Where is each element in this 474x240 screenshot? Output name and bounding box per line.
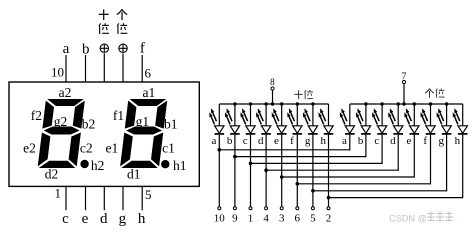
- svg-text:d: d: [100, 211, 108, 227]
- wire link segment c horizontal: [251, 162, 383, 164]
- svg-text:f: f: [423, 135, 427, 147]
- label GeWei (ones digit) vertical: [117, 9, 127, 34]
- tens decimal point h2: [80, 160, 88, 168]
- wire tens f cathode down to pin 6: [296, 134, 298, 207]
- LED tens segment a: [209, 104, 224, 134]
- wire link segment e horizontal: [282, 176, 415, 178]
- junction on ones rail: [445, 102, 448, 105]
- pin 1 terminal: [249, 207, 252, 210]
- svg-text:a1: a1: [143, 85, 156, 100]
- svg-text:6: 6: [145, 66, 152, 81]
- LED tens segment g: [303, 104, 318, 134]
- junction on ones rail: [380, 102, 383, 105]
- junction node b: [233, 155, 237, 159]
- junction node h: [327, 196, 331, 200]
- svg-text:h1: h1: [173, 158, 187, 173]
- wire link segment g horizontal: [313, 190, 447, 192]
- pin 6 terminal: [296, 207, 299, 210]
- wire ones a cathode drop: [349, 134, 351, 151]
- pin tens common anode (top): [103, 54, 105, 83]
- svg-text:d2: d2: [45, 166, 59, 181]
- svg-text:a: a: [63, 41, 70, 57]
- LED ones segment a: [340, 104, 355, 134]
- svg-text:b2: b2: [82, 116, 96, 131]
- junction node f: [296, 182, 300, 186]
- svg-text:c2: c2: [80, 140, 93, 155]
- pin 2 terminal: [327, 207, 330, 210]
- wire tens a cathode down to pin 10: [218, 134, 220, 207]
- svg-text:b: b: [82, 42, 90, 58]
- svg-text:c: c: [62, 211, 69, 227]
- wire link segment b horizontal: [235, 156, 366, 158]
- svg-text:d1: d1: [127, 166, 141, 181]
- wire tens b cathode down to pin 9: [234, 134, 236, 207]
- pin f (top): [141, 55, 143, 82]
- wire ones b cathode drop: [365, 134, 367, 157]
- pin 8 terminal: [270, 78, 275, 104]
- tens common anode rail: [219, 103, 328, 105]
- svg-text:d: d: [390, 135, 396, 147]
- svg-text:10: 10: [214, 212, 226, 224]
- svg-text:e: e: [407, 135, 412, 147]
- svg-text:5: 5: [145, 187, 152, 202]
- wire ones f cathode drop: [430, 134, 432, 185]
- circled-plus tens anode symbol: [100, 44, 108, 52]
- LED ones segment g: [437, 104, 452, 134]
- junction on ones rail: [397, 102, 400, 105]
- svg-text:4: 4: [263, 212, 269, 224]
- svg-text:h: h: [320, 135, 326, 147]
- svg-text:2: 2: [326, 212, 332, 224]
- svg-text:g: g: [305, 135, 311, 147]
- junction on tens rail: [311, 102, 314, 105]
- pin 9 terminal: [233, 207, 236, 210]
- junction node e: [280, 175, 284, 179]
- svg-text:c: c: [374, 135, 379, 147]
- svg-text:c: c: [243, 135, 248, 147]
- wire ones c cathode drop: [381, 134, 383, 164]
- svg-text:d: d: [258, 135, 264, 147]
- wire link segment a horizontal: [219, 149, 349, 151]
- junction on ones rail: [364, 102, 367, 105]
- pin a (top): [65, 55, 67, 82]
- wire tens c cathode down to pin 1: [250, 134, 252, 207]
- ones digit figure 8: [120, 99, 167, 168]
- wire link segment f horizontal: [297, 183, 430, 185]
- LED ones segment h: [453, 104, 468, 134]
- svg-text:b1: b1: [164, 116, 178, 131]
- ones decimal point h1: [161, 160, 169, 168]
- LED tens segment c: [241, 104, 256, 134]
- wire ones g cathode drop: [446, 134, 448, 192]
- svg-text:5: 5: [310, 212, 316, 224]
- svg-text:h: h: [455, 135, 461, 147]
- LED tens segment f: [287, 104, 302, 134]
- junction node g: [311, 189, 315, 193]
- wire tens g cathode down to pin 5: [312, 134, 314, 207]
- wire tens h cathode down to pin 2: [328, 134, 330, 207]
- pin c (bottom): [65, 186, 67, 210]
- junction on tens rail: [296, 102, 299, 105]
- LED tens segment h: [319, 104, 334, 134]
- junction ones feed: [402, 102, 405, 105]
- label ShiWei (tens digit) vertical: [99, 9, 109, 34]
- LED ones segment e: [404, 104, 419, 134]
- svg-text:e: e: [82, 211, 89, 227]
- wire tens e cathode down to pin 3: [281, 134, 283, 207]
- LED tens segment d: [256, 104, 271, 134]
- ones common anode rail: [350, 103, 463, 105]
- svg-text:a: a: [212, 135, 217, 147]
- wire link segment h horizontal: [329, 197, 463, 199]
- svg-text:1: 1: [55, 186, 62, 201]
- svg-text:f1: f1: [113, 108, 124, 123]
- watermark CSDN: [389, 212, 453, 224]
- pin 5 terminal: [311, 207, 314, 210]
- junction on tens rail: [264, 102, 267, 105]
- pin h (bottom): [141, 186, 143, 210]
- pin 7 terminal: [402, 72, 407, 104]
- wire ones e cathode drop: [413, 134, 415, 178]
- pin 10 terminal: [218, 207, 221, 210]
- svg-text:3: 3: [279, 212, 285, 224]
- svg-text:6: 6: [295, 212, 301, 224]
- junction on ones rail: [429, 102, 432, 105]
- junction tens feed: [271, 102, 274, 105]
- LED tens segment e: [272, 104, 287, 134]
- svg-text:e2: e2: [23, 140, 36, 155]
- wire link segment d horizontal: [266, 169, 398, 171]
- pin e (bottom): [85, 186, 87, 210]
- svg-text:b: b: [358, 135, 364, 147]
- svg-text:1: 1: [248, 212, 254, 224]
- LED ones segment d: [388, 104, 403, 134]
- junction node d: [264, 168, 268, 172]
- junction on tens rail: [249, 102, 252, 105]
- svg-text:g: g: [119, 211, 127, 227]
- svg-text:f: f: [140, 41, 145, 57]
- pin g (bottom): [122, 186, 124, 210]
- svg-text:g2: g2: [54, 114, 68, 129]
- tens digit figure 8: [38, 99, 85, 168]
- svg-text:g: g: [439, 135, 445, 147]
- svg-text:h2: h2: [91, 158, 105, 173]
- junction on tens rail: [233, 102, 236, 105]
- svg-text:a2: a2: [59, 85, 72, 100]
- pin d (bottom): [103, 186, 105, 210]
- svg-text:b: b: [227, 135, 233, 147]
- svg-text:h: h: [138, 211, 146, 227]
- svg-text:a: a: [342, 135, 347, 147]
- LED ones segment c: [372, 104, 387, 134]
- svg-text:e1: e1: [106, 140, 119, 155]
- wire ones d cathode drop: [397, 134, 399, 171]
- circled-plus ones anode symbol: [119, 44, 127, 52]
- pin ones common anode (top): [122, 54, 124, 83]
- svg-text:f: f: [290, 135, 294, 147]
- label ShiWei (tens) at rail: [294, 90, 313, 99]
- svg-text:CSDN @: CSDN @: [389, 214, 427, 224]
- display package outline: [9, 82, 199, 186]
- LED tens segment b: [225, 104, 240, 134]
- label GeWei (ones) at rail: [425, 88, 444, 97]
- junction node c: [249, 162, 253, 166]
- pin b (top): [85, 55, 87, 82]
- junction on tens rail: [280, 102, 283, 105]
- svg-text:9: 9: [232, 212, 238, 224]
- svg-text:f2: f2: [31, 108, 42, 123]
- pin 4 terminal: [265, 207, 268, 210]
- junction on ones rail: [413, 102, 416, 105]
- junction node a: [218, 148, 222, 152]
- wire ones h cathode drop: [462, 134, 464, 198]
- LED ones segment b: [356, 104, 371, 134]
- svg-text:e: e: [274, 135, 279, 147]
- svg-text:c1: c1: [162, 140, 175, 155]
- svg-text:10: 10: [51, 65, 64, 80]
- wire tens d cathode down to pin 4: [265, 134, 267, 207]
- LED ones segment f: [421, 104, 436, 134]
- pin 3 terminal: [280, 207, 283, 210]
- svg-text:g1: g1: [136, 114, 150, 129]
